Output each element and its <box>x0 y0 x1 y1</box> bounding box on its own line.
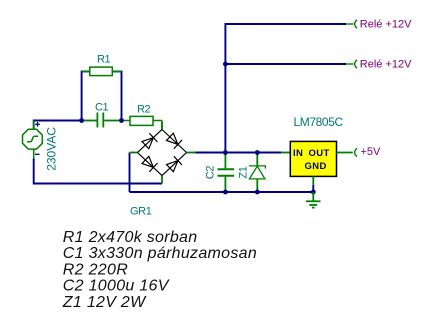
port connector rele2 <box>346 60 357 68</box>
diode D top-left <box>142 133 158 149</box>
svg-text:LM7805C: LM7805C <box>294 115 344 129</box>
svg-text:R2: R2 <box>137 104 151 116</box>
resistor R1 <box>82 67 122 76</box>
svg-text:C1 3x330n párhuzamosan: C1 3x330n párhuzamosan <box>63 245 257 262</box>
wire +12V bus vertical <box>225 24 346 153</box>
junction dot Z1 top <box>255 150 260 155</box>
ground symbol <box>306 192 321 208</box>
wire rele2 horizontal <box>225 63 346 65</box>
diode D bottom-left <box>142 156 158 172</box>
regulator U1 LM7805C <box>281 141 353 192</box>
resistor R2 <box>122 116 163 129</box>
wire positive rail <box>196 152 282 154</box>
zener diode Z1 <box>249 153 266 193</box>
bridge green pins <box>130 122 196 184</box>
capacitor C1 <box>82 113 122 128</box>
svg-text:C2 1000u 16V: C2 1000u 16V <box>63 278 170 295</box>
wire AC hot top rail <box>34 121 82 130</box>
svg-text:GND: GND <box>305 161 327 172</box>
junction dot rele2 <box>223 62 228 67</box>
junction dot bus/rail <box>223 150 228 155</box>
wire bottom rail <box>130 191 314 193</box>
svg-text:Relé +12V: Relé +12V <box>360 19 412 31</box>
svg-text:Z1: Z1 <box>238 166 250 178</box>
wire R1 branch right vertical <box>112 71 121 120</box>
svg-text:R2 220R: R2 220R <box>63 261 128 278</box>
svg-text:OUT: OUT <box>309 148 330 159</box>
junction dot ground <box>311 190 316 195</box>
junction dot C1 right <box>119 118 124 123</box>
svg-text:R1 2x470k sorban: R1 2x470k sorban <box>63 229 198 246</box>
junction dot Z1 bottom <box>255 190 260 195</box>
AC source V1 circle <box>23 121 43 159</box>
svg-text:230VAC: 230VAC <box>44 127 58 171</box>
junction dot C1 left <box>79 118 84 123</box>
svg-text:Z1 12V 2W: Z1 12V 2W <box>62 294 147 311</box>
svg-text:C1: C1 <box>95 102 109 114</box>
svg-text:C2: C2 <box>205 166 217 180</box>
wire AC neutral bottom <box>34 159 162 184</box>
svg-text:R1: R1 <box>97 54 111 66</box>
port connector rele1 <box>346 20 357 28</box>
junction dot C2 bottom <box>223 190 228 195</box>
svg-text:GR1: GR1 <box>130 206 152 218</box>
wire R1 branch left vertical <box>82 71 90 120</box>
svg-text:Relé +12V: Relé +12V <box>360 59 412 71</box>
svg-text:+5V: +5V <box>361 146 382 158</box>
capacitor C2 <box>218 153 235 193</box>
diode D top-right <box>167 133 183 149</box>
plus sign <box>35 122 40 127</box>
svg-text:IN: IN <box>293 148 303 159</box>
bridge rectifier GR1 <box>138 130 187 176</box>
minus sign <box>35 153 40 155</box>
diode D bottom-right <box>167 156 183 172</box>
port connector +5V <box>355 148 357 156</box>
wire bridge minus vertical <box>129 153 131 193</box>
